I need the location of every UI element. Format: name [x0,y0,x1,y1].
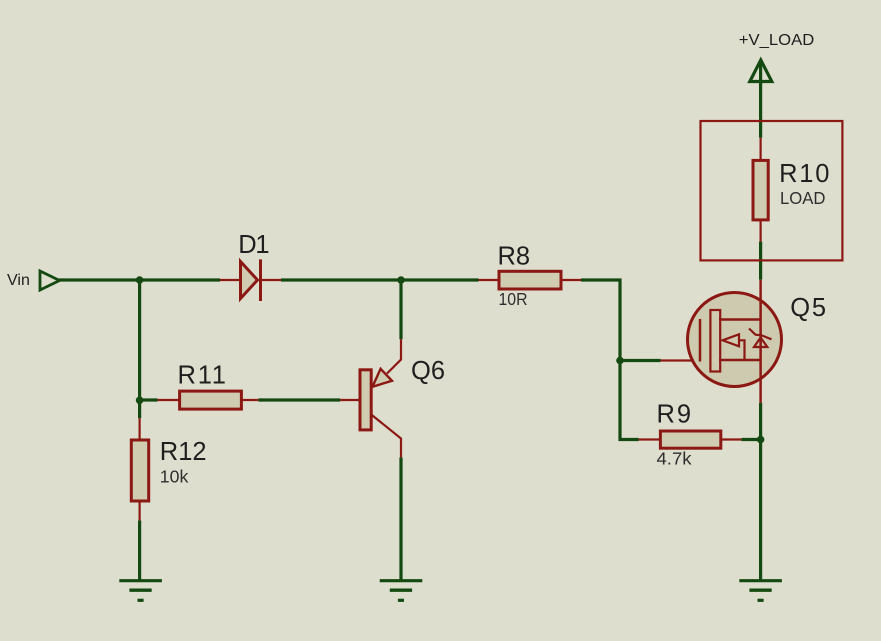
wire: +V_LOAD terminal down to R10 top [759,61,762,138]
wire: gate node down and right to R9 left [620,361,639,440]
svg-text:10R: 10R [499,289,528,309]
wire: Q6 collector down to ground [399,457,402,580]
ground (below Q5 source) [739,581,782,601]
resistor R9 4.7k [639,400,742,468]
svg-text:LOAD: LOAD [780,188,826,208]
wire: R10 bottom to Q5 drain [759,242,762,280]
svg-text:R9: R9 [657,400,694,428]
svg-text:Q6: Q6 [411,357,445,385]
node: junction dot at Vin/R12 column [136,276,144,284]
node: junction dot at R11/R12 divider [136,397,144,405]
body diode [749,329,772,340]
diode D1 [220,231,281,301]
svg-text:R8: R8 [498,243,531,271]
node: junction dot at D1/Q6 emitter column [397,276,405,284]
svg-text:R11: R11 [178,361,228,389]
node: junction dot at gate node [616,357,624,365]
drain/source pin through circle [759,280,762,403]
terminal: Vin input terminal [7,271,60,290]
resistor R12 10k [131,418,206,520]
svg-text:+V_LOAD: +V_LOAD [739,32,815,49]
substrate arrow [723,334,740,346]
resistor R10 LOAD [753,138,831,242]
wire: Q5 source down to ground [759,403,762,580]
wire: left junction to R11 left pin [140,398,158,401]
ground (below Q6 collector) [380,581,423,601]
wire: R11 right pin to Q6 base pin [258,398,340,401]
channel bar [710,310,720,372]
wire: main row junction down to Q6 emitter pin [399,280,402,339]
LOAD subcircuit box [701,121,843,260]
power terminal +V_LOAD [739,32,815,82]
svg-text:4.7k: 4.7k [657,448,692,468]
source connect [719,359,760,362]
wire: R9 right to source-column junction [741,438,760,441]
svg-text:R12: R12 [160,438,207,466]
wire: R8 right, corner down to gate-node junction [581,280,620,361]
wire: Vin terminal to D1 anode (main row) [58,278,220,281]
resistor R11 [158,361,259,409]
wire: left junction down to R12 top [138,280,141,418]
ground (below R12) [119,581,162,601]
MOSFET Q5 [661,280,828,403]
gate plate line [699,319,702,362]
svg-text:D1: D1 [238,231,268,259]
wire: R12 bottom to ground [138,520,141,580]
wire: gate node to Q5 gate pin [620,359,661,362]
resistor R8 10R [479,243,582,310]
gate pin [661,359,695,361]
transistor Q6 (PNP) [340,339,445,457]
drain connect [719,318,760,321]
svg-text:R10: R10 [779,160,831,188]
svg-text:Q5: Q5 [790,294,828,322]
svg-text:Vin: Vin [7,272,30,289]
wire: D1 cathode to R8 left [281,278,479,281]
node: junction dot at R9/source column [757,436,765,444]
svg-text:10k: 10k [160,467,189,487]
